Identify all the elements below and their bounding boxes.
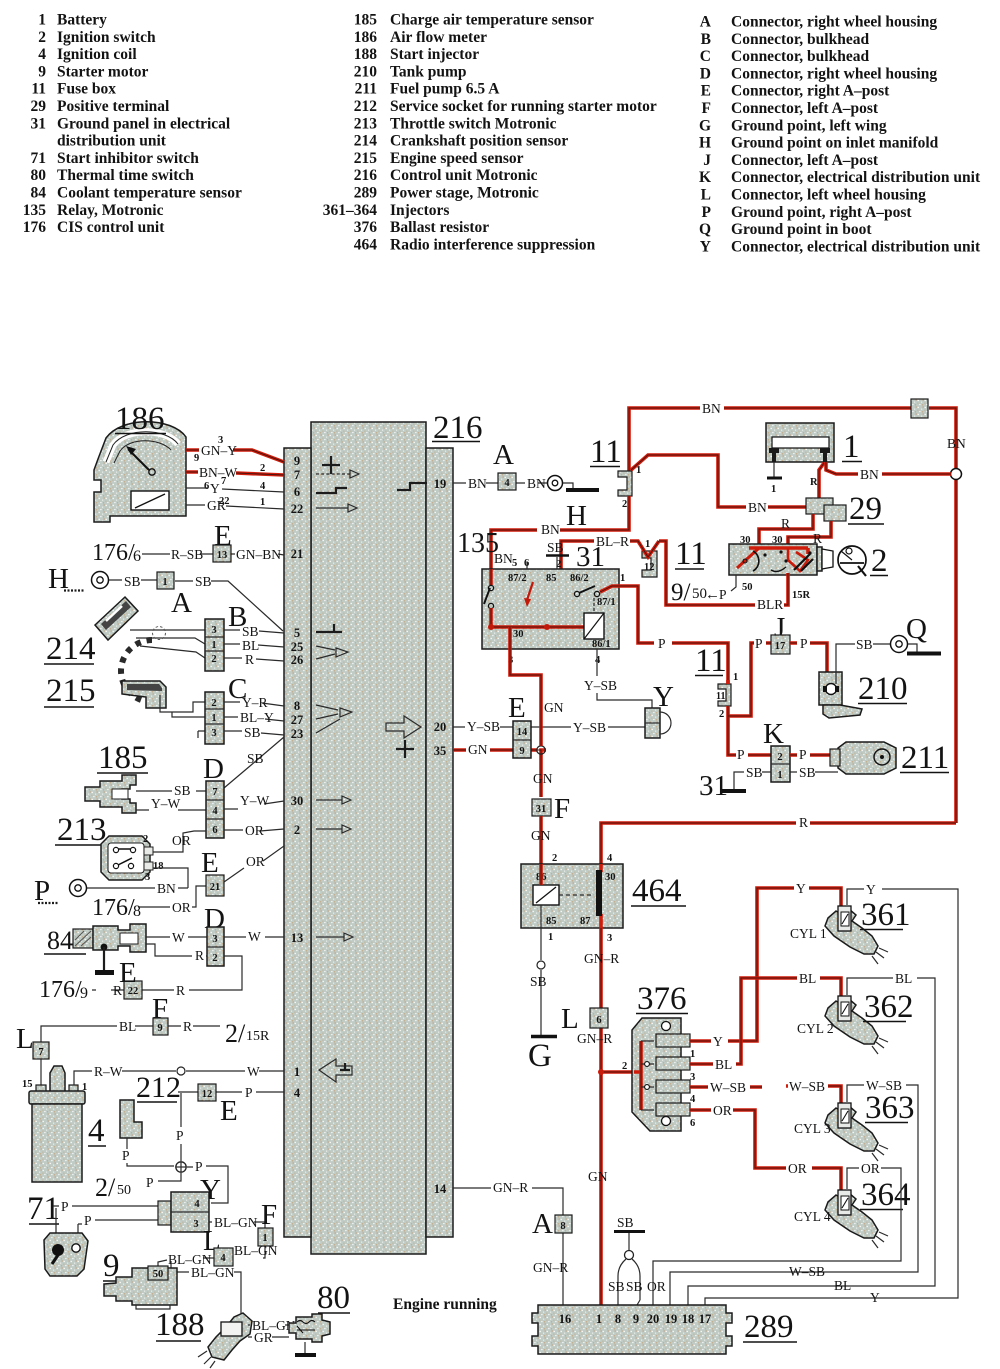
internal tick symbol pin 5: [316, 624, 342, 632]
internal arrow pin 13: [316, 933, 353, 941]
internal arrow pin 2: [316, 825, 351, 833]
svg-text:2: 2: [552, 853, 557, 864]
376 internal red bus: [634, 1041, 654, 1110]
battery left terminal stub: [767, 462, 818, 495]
svg-text:distribution unit: distribution unit: [57, 133, 167, 150]
svg-text:4: 4: [88, 1113, 105, 1149]
wire 50 stub: [731, 575, 736, 591]
svg-text:Y–R: Y–R: [242, 695, 268, 710]
svg-text:Ground point, left wing: Ground point, left wing: [731, 117, 887, 134]
svg-text:SB: SB: [547, 540, 564, 555]
svg-text:Ballast resistor: Ballast resistor: [390, 219, 489, 236]
wires B to pins 5 25 26: [224, 624, 284, 667]
svg-text:K: K: [763, 718, 784, 750]
svg-text:Y: Y: [713, 1034, 723, 1049]
svg-text:BN–W: BN–W: [199, 465, 238, 480]
svg-text:Connector, electrical distribu: Connector, electrical distribution unit: [731, 238, 981, 255]
svg-text:BN: BN: [541, 522, 560, 537]
svg-text:186: 186: [115, 401, 165, 437]
connector D box: [206, 781, 224, 838]
wire GN E9 down to F31: [533, 771, 553, 786]
svg-text:L: L: [701, 187, 711, 204]
air flow meter 186 body: [94, 422, 186, 522]
svg-text:216: 216: [433, 410, 483, 446]
svg-text:87: 87: [580, 916, 591, 927]
svg-text:21: 21: [210, 882, 221, 893]
connector L box 6: [590, 1008, 608, 1028]
svg-text:A: A: [171, 587, 192, 619]
svg-text:361: 361: [861, 897, 911, 933]
svg-text:27: 27: [291, 713, 304, 727]
svg-text:9: 9: [294, 454, 300, 468]
svg-text:21: 21: [291, 547, 304, 561]
wire BN-W 186 to pin 7: [186, 472, 284, 475]
wire P junction to Y box: [187, 1159, 228, 1203]
svg-text:OR: OR: [647, 1279, 666, 1294]
wire 212 to E box 12: [178, 1085, 284, 1100]
svg-text:P: P: [737, 747, 745, 762]
svg-text:BN: BN: [527, 476, 546, 491]
svg-text:R: R: [781, 516, 790, 531]
svg-text:Connector, right A–post: Connector, right A–post: [731, 83, 890, 100]
svg-text:213: 213: [57, 812, 107, 848]
svg-text:Y: Y: [210, 481, 220, 496]
control unit 216 right pin strip: [426, 448, 453, 1237]
svg-text:2: 2: [143, 834, 148, 845]
svg-text:R: R: [810, 477, 818, 488]
svg-text:K: K: [699, 169, 711, 186]
wire OR 176/8 to E box 21: [138, 886, 206, 915]
svg-text:SB: SB: [608, 1279, 625, 1294]
junction circle GN: [537, 746, 545, 754]
svg-text:SB: SB: [242, 624, 259, 639]
junction circle BN: [951, 469, 962, 480]
svg-text:P: P: [195, 1159, 203, 1174]
fuel pump 211: [830, 742, 896, 774]
injector 363: [825, 1103, 888, 1161]
svg-text:W–SB: W–SB: [789, 1264, 825, 1279]
svg-text:71: 71: [31, 150, 47, 167]
SB antenna symbol: [608, 1215, 645, 1305]
svg-text:H: H: [566, 500, 587, 532]
svg-text:1: 1: [733, 672, 738, 683]
svg-text:15: 15: [22, 1079, 33, 1090]
svg-text:18: 18: [153, 861, 164, 872]
label 9: [103, 1248, 121, 1284]
svg-text:Y: Y: [796, 881, 806, 896]
svg-text:CYL 4: CYL 4: [794, 1209, 831, 1224]
connector E box 22: [124, 981, 142, 999]
label 361: [790, 897, 911, 941]
wire BN 213 pin18 to ground P: [86, 868, 188, 896]
svg-text:19: 19: [665, 1312, 678, 1326]
start inhibitor switch 71: [44, 1233, 88, 1276]
svg-text:Power stage, Motronic: Power stage, Motronic: [390, 185, 539, 202]
label 2 ignition switch: [870, 543, 888, 579]
wire L7 down to coil: [40, 1059, 42, 1091]
svg-text:R–W: R–W: [94, 1064, 123, 1079]
svg-text:1: 1: [211, 713, 216, 724]
wire BL-GN branch to 188: [171, 1261, 248, 1328]
wire OR 213 pin2 to D6: [153, 831, 206, 852]
svg-text:3: 3: [211, 728, 216, 739]
svg-text:P: P: [800, 636, 808, 651]
wire diagonal fuse to BN battery line: [631, 455, 807, 515]
wire GR 186 to pin 22: [186, 498, 284, 513]
svg-text:2: 2: [719, 709, 724, 720]
ground point P: [34, 875, 87, 907]
connector E box 21: [206, 875, 224, 896]
fuse 11 first label: [590, 434, 622, 470]
svg-text:BL: BL: [119, 1019, 136, 1034]
svg-text:8: 8: [560, 1221, 565, 1232]
svg-text:214: 214: [354, 133, 378, 150]
svg-text:OR: OR: [246, 854, 265, 869]
svg-text:CYL 1: CYL 1: [790, 926, 827, 941]
svg-text:SB: SB: [617, 1215, 634, 1230]
svg-text:363: 363: [865, 1090, 915, 1126]
svg-text:Y: Y: [866, 882, 876, 897]
svg-text:Starter motor: Starter motor: [57, 63, 149, 80]
wire BL-R relay to fuse 12: [561, 534, 659, 569]
svg-text:BN: BN: [702, 401, 721, 416]
ground point Q: [891, 613, 942, 654]
ground point H left: [48, 563, 109, 595]
svg-text:W: W: [247, 1064, 260, 1079]
svg-text:H: H: [699, 135, 711, 152]
svg-text:Y–W: Y–W: [240, 793, 269, 808]
svg-text:12: 12: [644, 562, 655, 573]
connector E box 13: [213, 545, 231, 562]
label 214: [44, 631, 96, 667]
wire BL-GN Y3 to F1: [209, 1215, 265, 1230]
svg-text:31: 31: [536, 804, 547, 815]
engine speed sensor 215 symbol: [122, 681, 166, 708]
svg-text:71: 71: [27, 1191, 60, 1227]
svg-text:1: 1: [548, 932, 553, 943]
svg-text:Connector, electrical distribu: Connector, electrical distribution unit: [731, 169, 981, 186]
connector J box 17: [771, 635, 790, 654]
svg-text:3: 3: [145, 872, 150, 883]
svg-text:12: 12: [202, 1089, 213, 1100]
label 176/8: [92, 895, 141, 921]
fuse 11 second symbol: [716, 672, 738, 720]
key symbol 2: [838, 546, 866, 576]
svg-text:210: 210: [858, 671, 908, 707]
return wire Y injector 361: [705, 882, 958, 1305]
svg-text:BL: BL: [799, 971, 816, 986]
svg-text:4: 4: [504, 478, 510, 489]
svg-text:135: 135: [457, 528, 499, 559]
svg-text:11: 11: [716, 691, 725, 702]
fuse 11 second label: [695, 643, 727, 679]
svg-text:289: 289: [744, 1309, 794, 1345]
wire Y-SB relay pin4 to Y connector: [584, 649, 652, 708]
wire BL-GN L4 to starter 50: [158, 1252, 214, 1267]
label 363: [794, 1090, 915, 1136]
svg-text:F: F: [702, 100, 711, 117]
connector F box 31: [532, 799, 551, 816]
internal plus symbol mid: [396, 740, 414, 758]
svg-text:P: P: [245, 1085, 253, 1100]
svg-text:6: 6: [690, 1118, 695, 1129]
svg-text:29: 29: [31, 98, 47, 115]
svg-text:11: 11: [31, 81, 46, 98]
svg-text:9: 9: [38, 63, 46, 80]
svg-text:BN: BN: [947, 436, 966, 451]
svg-text:1: 1: [82, 1082, 87, 1093]
svg-text:GN: GN: [533, 771, 553, 786]
svg-text:BLR: BLR: [757, 597, 783, 612]
label 464: [631, 873, 686, 909]
svg-text:2: 2: [777, 752, 782, 763]
svg-text:362: 362: [864, 989, 914, 1025]
svg-text:SB: SB: [799, 765, 816, 780]
svg-text:176/: 176/: [92, 895, 135, 921]
wire OR 376 to injector 364: [690, 1103, 841, 1194]
svg-text:2: 2: [211, 654, 216, 665]
svg-text:OR: OR: [172, 900, 191, 915]
svg-text:P: P: [61, 1199, 69, 1214]
svg-text:16: 16: [559, 1312, 572, 1326]
svg-text:15R: 15R: [792, 590, 811, 601]
svg-text:R: R: [176, 983, 185, 998]
svg-text:L: L: [561, 1003, 579, 1035]
wire SB 464 pin1 to ground G: [530, 928, 547, 1035]
svg-text:11: 11: [590, 434, 622, 470]
svg-text:Fuel pump 6.5 A: Fuel pump 6.5 A: [390, 81, 500, 98]
svg-text:CIS control unit: CIS control unit: [57, 219, 165, 236]
svg-text:8: 8: [294, 699, 300, 713]
svg-text:464: 464: [632, 873, 682, 909]
wire loop D2 to E22: [92, 956, 242, 998]
connector K box: [771, 746, 790, 782]
svg-text:1: 1: [771, 484, 776, 495]
injector 364: [825, 1190, 888, 1248]
svg-text:7: 7: [38, 1047, 43, 1058]
svg-text:361–364: 361–364: [323, 202, 378, 219]
svg-text:4: 4: [220, 1253, 226, 1264]
svg-text:Fuse box: Fuse box: [57, 81, 116, 98]
relay internals: [484, 557, 616, 650]
svg-text:211: 211: [355, 81, 377, 98]
wire J to tank pump 210: [790, 643, 827, 686]
svg-text:Connector, left A–post: Connector, left A–post: [731, 152, 879, 169]
wire W-SB 376 to injector 363: [690, 1079, 841, 1107]
svg-text:464: 464: [354, 236, 378, 253]
svg-text:Y: Y: [700, 238, 711, 255]
svg-text:Ground point, right A–post: Ground point, right A–post: [731, 204, 912, 221]
svg-text:BN: BN: [748, 500, 767, 515]
svg-text:Battery: Battery: [57, 12, 107, 29]
svg-text:←: ←: [705, 587, 720, 603]
svg-text:Crankshaft position sensor: Crankshaft position sensor: [390, 133, 568, 150]
svg-text:Radio interference suppression: Radio interference suppression: [390, 236, 596, 253]
svg-text:Connector, right wheel housing: Connector, right wheel housing: [731, 14, 937, 31]
svg-text:216: 216: [354, 167, 378, 184]
svg-text:Ground point in boot: Ground point in boot: [731, 221, 872, 238]
label 289: [743, 1309, 797, 1345]
svg-text:2: 2: [622, 499, 627, 510]
svg-text:BL: BL: [715, 1057, 732, 1072]
svg-text:212: 212: [354, 98, 378, 115]
svg-text:4: 4: [595, 655, 601, 666]
svg-text:80: 80: [317, 1280, 350, 1316]
svg-text:3: 3: [212, 934, 217, 945]
svg-text:P: P: [122, 1148, 130, 1163]
svg-text:6: 6: [212, 825, 217, 836]
svg-text:376: 376: [354, 219, 378, 236]
svg-text:BN: BN: [157, 881, 176, 896]
svg-text:BN: BN: [860, 467, 879, 482]
svg-text:1: 1: [645, 539, 650, 550]
starter motor 9: [104, 1266, 177, 1309]
ignition coil 4: [29, 1066, 85, 1182]
svg-text:P: P: [658, 636, 666, 651]
svg-text:D: D: [203, 753, 224, 785]
svg-text:Engine speed sensor: Engine speed sensor: [390, 150, 524, 167]
wire relay pin3 to GN junction: [510, 627, 541, 746]
svg-text:6: 6: [596, 1015, 601, 1026]
svg-text:2: 2: [211, 698, 216, 709]
svg-text:GR: GR: [207, 498, 226, 513]
svg-text:BL–GN: BL–GN: [234, 1243, 278, 1258]
svg-text:215: 215: [354, 150, 378, 167]
svg-text:26: 26: [291, 653, 304, 667]
svg-text:SB: SB: [626, 1279, 643, 1294]
svg-text:4: 4: [194, 1199, 200, 1210]
svg-text:13: 13: [291, 931, 304, 945]
svg-text:Ignition switch: Ignition switch: [57, 29, 156, 46]
label 2/50: [95, 1173, 154, 1202]
svg-text:1: 1: [620, 573, 625, 584]
wire BL 9 R to 2/15R: [41, 1019, 220, 1042]
wire fuse to J and K: [728, 643, 771, 755]
svg-text:BL–GN: BL–GN: [191, 1265, 235, 1280]
wire BN right vertical to R line: [947, 436, 966, 823]
fuse 11 first symbol: [618, 465, 641, 510]
wire P 71 to Y box small block: [78, 1213, 158, 1235]
svg-text:17: 17: [775, 641, 786, 652]
thermal time switch 80: [289, 1314, 330, 1342]
svg-text:GN–R: GN–R: [493, 1180, 528, 1195]
svg-text:R: R: [245, 652, 254, 667]
svg-text:A: A: [532, 1208, 553, 1240]
svg-text:GN: GN: [544, 700, 564, 715]
wire P 212 chain to junction: [122, 1093, 184, 1181]
svg-text:2: 2: [871, 543, 888, 579]
svg-text:3: 3: [193, 1219, 198, 1230]
svg-text:29: 29: [849, 491, 882, 527]
label 211: [900, 740, 949, 776]
injector 362: [825, 996, 888, 1054]
wires 214 to connector B: [130, 627, 205, 659]
svg-text:5: 5: [294, 626, 300, 640]
svg-text:Thermal time switch: Thermal time switch: [57, 167, 194, 184]
internal switch symbol to pin 19: [397, 483, 427, 490]
connector L box 7: [33, 1042, 49, 1059]
wire Y-W D4 to pin 30: [224, 793, 284, 809]
svg-text:8: 8: [615, 1312, 621, 1326]
connector F box 9: [153, 1018, 168, 1035]
air flow meter 186 label: [115, 401, 166, 437]
svg-text:1: 1: [690, 1049, 695, 1060]
label 213: [55, 812, 107, 848]
svg-text:84: 84: [31, 185, 47, 202]
svg-text:GN–BN: GN–BN: [236, 547, 281, 562]
svg-text:1: 1: [843, 429, 860, 465]
label 29: [848, 491, 884, 527]
wire R line to 464 pin 4: [601, 815, 956, 864]
ground point G: [528, 1037, 557, 1075]
internal big open arrow to pin 20: [386, 716, 421, 738]
svg-text:2/: 2/: [225, 1019, 246, 1048]
wire GN-R pin14 to A8: [453, 1180, 568, 1305]
gear symbol: [121, 640, 152, 702]
label 176/9: [39, 977, 88, 1003]
label 215: [44, 673, 96, 709]
svg-text:SB: SB: [195, 574, 212, 589]
label 216: [432, 410, 483, 446]
svg-text:D: D: [700, 65, 711, 82]
ground point H right: [548, 476, 600, 533]
internal plus symbol top: [322, 456, 340, 474]
svg-text:Charge air temperature sensor: Charge air temperature sensor: [390, 12, 594, 29]
svg-text:L: L: [16, 1023, 34, 1055]
label 4: [88, 1113, 106, 1149]
svg-text:G: G: [528, 1038, 552, 1074]
svg-text:Q: Q: [906, 613, 927, 645]
svg-text:50: 50: [153, 1269, 164, 1280]
svg-text:GR: GR: [254, 1330, 273, 1345]
svg-text:Relay, Motronic: Relay, Motronic: [57, 202, 164, 219]
service socket 212 symbol: [120, 1100, 142, 1138]
svg-text:W–SB: W–SB: [866, 1078, 902, 1093]
wire 15R to BLR: [659, 541, 788, 612]
wire P labels at J: [755, 636, 808, 651]
svg-text:17: 17: [699, 1312, 712, 1326]
label 2/15R: [225, 1019, 270, 1048]
connector F box 1: [258, 1228, 273, 1246]
wire OR D6 to pin 2: [224, 823, 284, 838]
svg-text:GN–R: GN–R: [584, 951, 619, 966]
label 185: [97, 740, 148, 776]
wire Y 186 to pin 6: [186, 481, 284, 496]
svg-text:212: 212: [136, 1071, 181, 1104]
svg-text:176/: 176/: [39, 977, 82, 1003]
junction circle P: [176, 1162, 186, 1172]
svg-text:W–SB: W–SB: [789, 1079, 825, 1094]
relay top labels: [494, 540, 625, 584]
svg-text:188: 188: [155, 1307, 205, 1343]
svg-text:9: 9: [80, 985, 88, 1002]
wires C to pins 8 27 23: [224, 695, 284, 740]
svg-text:BL: BL: [834, 1278, 851, 1293]
svg-text:F: F: [261, 1199, 277, 1231]
svg-text:85: 85: [546, 573, 557, 584]
return wire BL injector 362: [688, 971, 935, 1305]
svg-text:4: 4: [607, 853, 613, 864]
wires 29 down to ignition switch: [759, 514, 831, 548]
svg-text:Y–SB: Y–SB: [573, 720, 606, 735]
svg-text:CYL 2: CYL 2: [797, 1021, 834, 1036]
svg-text:87/2: 87/2: [508, 573, 527, 584]
svg-text:Y–SB: Y–SB: [467, 719, 500, 734]
svg-text:1: 1: [38, 12, 46, 29]
svg-text:P: P: [176, 1128, 184, 1143]
ignition switch terminal labels: [740, 535, 811, 601]
relay 135 box: [482, 569, 619, 649]
